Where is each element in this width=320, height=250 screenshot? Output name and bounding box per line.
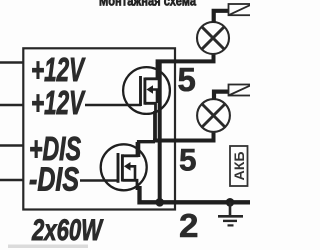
lead stub -DIS (0, 179, 23, 181)
wire lamp1 bar (drain Q1 to lamp1 riser) (156, 53, 214, 61)
svg-text:+12V: +12V (31, 84, 86, 121)
fuse F1 (229, 4, 253, 15)
wire gate Q1 (+12V row2 to gate) (85, 104, 141, 107)
controller box (23, 48, 175, 209)
svg-text:2: 2 (179, 208, 199, 245)
faint page smudge bottom-left (8, 245, 88, 249)
wire lamp2 horizontal (153, 131, 214, 141)
wire lamp1 to fuse1 (214, 11, 229, 23)
wire source Q2 down + ground bus (140, 186, 251, 202)
transistor Q2 (MOSFET, bottom) (101, 142, 147, 190)
battery AKB box (230, 146, 248, 186)
svg-text:+12V: +12V (31, 51, 86, 88)
wire main vertical (bar to ground wire) (158, 60, 162, 203)
transistor Q1 (MOSFET, top) (123, 63, 170, 114)
wire drain Q2 elbow (139, 142, 155, 157)
svg-text:Монтажная схема: Монтажная схема (99, 0, 196, 9)
ground (218, 202, 243, 225)
svg-text:5: 5 (178, 61, 196, 98)
fuse F2 (229, 85, 253, 96)
wire source Q1 down (153, 111, 157, 142)
lead stub +DIS (0, 144, 23, 146)
lamp L2 (197, 99, 230, 132)
junction node B (battery/ground) (226, 198, 235, 207)
svg-text:-DIS: -DIS (29, 161, 79, 198)
wire gate Q2 (-DIS to gate) (80, 179, 119, 182)
lamp L1 (197, 22, 229, 54)
svg-text:2x60W: 2x60W (31, 214, 104, 247)
lead stub +12V (1) (0, 61, 23, 63)
lead stub +12V (2) (0, 104, 23, 106)
wire lamp2 to fuse2 (214, 92, 229, 100)
svg-text:АКБ: АКБ (231, 152, 247, 181)
svg-text:5: 5 (179, 142, 197, 178)
junction node A (155, 198, 164, 207)
